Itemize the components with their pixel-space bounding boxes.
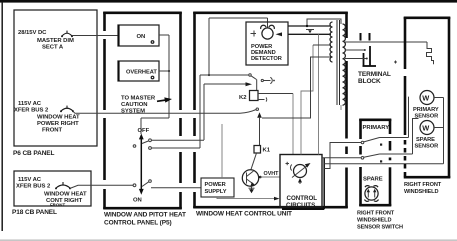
svg-text:115V AC: 115V AC (18, 101, 42, 107)
wire transformer to windshield heat film (345, 41, 427, 43)
rotary selector actuator (365, 186, 379, 202)
right front windshield sensor switch box (thick, gaps) (359, 119, 391, 206)
svg-text:28/15V DC: 28/15V DC (18, 30, 47, 36)
svg-text:PRIMARY: PRIMARY (413, 107, 439, 113)
svg-text:W: W (422, 93, 429, 102)
wire OVERHEAT light return (159, 70, 170, 72)
transformer taps left winding (262, 45, 331, 118)
node OVHT output (259, 171, 280, 178)
label P6 CB PANEL (13, 150, 55, 157)
window heat control unit box (thick, gaps at wire entries) (193, 12, 348, 208)
label PRIMARY (switch position) (363, 125, 390, 131)
wire sensor common return (324, 163, 443, 165)
P6 circuit breaker panel box (14, 10, 97, 146)
spare sensor (413, 119, 444, 155)
label WINDOW AND PITOT HEAT CONTROL PANEL (P5) (104, 212, 186, 227)
svg-text:115V AC: 115V AC (18, 177, 42, 183)
bus label 28/15V DC (18, 30, 47, 36)
P18 circuit breaker panel box (14, 171, 91, 206)
svg-text:CIRCUITS: CIRCUITS (286, 202, 315, 209)
label RIGHT FRONT WINDSHIELD SENSOR SWITCH (357, 211, 403, 231)
svg-text:K1: K1 (263, 148, 271, 154)
wire into power supply from K1 contact feed (221, 124, 223, 178)
svg-text:SENSOR SWITCH: SENSOR SWITCH (357, 225, 403, 231)
relay coil K1 (251, 146, 271, 171)
wires transformer taps to terminal block (345, 49, 368, 60)
bus label 115V AC XFER BUS 2 (14, 101, 49, 114)
svg-text:RIGHT FRONT: RIGHT FRONT (404, 182, 442, 188)
wire feed to power demand detector (208, 18, 268, 76)
svg-text:OFF: OFF (138, 128, 150, 134)
power supply box (201, 178, 234, 197)
wire switch ON output to power supply (151, 187, 201, 189)
svg-text:XFER BUS 2: XFER BUS 2 (14, 108, 49, 114)
windshield heat film element (427, 42, 434, 64)
relay contact K1 (movable arm) (240, 108, 262, 146)
wire switch contact row2 to relay contact K2 (151, 75, 248, 148)
svg-text:PRIMARY: PRIMARY (363, 125, 390, 131)
svg-text:SECT A: SECT A (42, 45, 64, 51)
svg-text:MASTER DIM: MASTER DIM (37, 38, 74, 44)
relay coil K2 (239, 80, 293, 155)
circuit breaker WINDOW HEAT POWER RIGHT FRONT (37, 106, 80, 134)
power demand detector box (246, 22, 288, 65)
svg-text:SPARE: SPARE (363, 177, 383, 183)
svg-text:POWER: POWER (205, 182, 226, 188)
svg-text:P18 CB PANEL: P18 CB PANEL (12, 209, 57, 216)
arrow into detector from transformer line (276, 32, 283, 36)
svg-text:WINDOW HEAT: WINDOW HEAT (44, 192, 87, 198)
svg-text:XFER BUS 2: XFER BUS 2 (16, 184, 51, 190)
transistor overheat sensor stage (242, 170, 258, 186)
svg-text:K2: K2 (239, 95, 247, 101)
svg-text:FRONT: FRONT (50, 203, 65, 208)
indicator light OVERHEAT (118, 61, 159, 81)
wire ON light return (159, 35, 169, 118)
bus label 115V AC XFER BUS 2 (P18) (16, 177, 51, 190)
svg-text:WINDSHIELD: WINDSHIELD (404, 189, 438, 195)
primary sensor (409, 91, 444, 138)
wires K2 and transformer taps down into control circuits (301, 34, 341, 154)
window and pitot heat control panel box (thick, gaps at wire entries) (103, 12, 182, 209)
wire CB2 long 115VAC power to control unit (73, 111, 240, 113)
svg-text:SYSTEM: SYSTEM (121, 109, 145, 115)
label RIGHT FRONT WINDSHIELD (404, 182, 442, 195)
svg-text:OVERHEAT: OVERHEAT (126, 70, 157, 76)
wire control circuits to sensor switch contact 1 (324, 143, 361, 169)
ground below transistor (249, 186, 255, 193)
wire control circuits to sensor switch contact 2 (322, 157, 361, 159)
svg-text:SPARE: SPARE (416, 137, 435, 143)
svg-text:TERMINAL: TERMINAL (358, 71, 391, 78)
svg-text:WINDSHIELD: WINDSHIELD (357, 218, 391, 224)
relay contact K2 (upper contact) (249, 74, 275, 84)
sensor switch contact spare (361, 154, 412, 163)
wire lights to switch OFF throw (141, 118, 169, 134)
svg-text:OVHT: OVHT (264, 171, 280, 177)
wire power supply to control circuits (217, 197, 280, 201)
indicator light ON (118, 25, 159, 46)
svg-text:CONTROL PANEL (P5): CONTROL PANEL (P5) (104, 220, 172, 227)
thick power wire detector to transformer (288, 19, 341, 34)
svg-text:RIGHT FRONT: RIGHT FRONT (357, 211, 395, 217)
circuit breaker WINDOW HEAT CONT RIGHT FRONT (44, 182, 87, 208)
control circuits box with shadow (280, 155, 324, 210)
wire sensors return riser (443, 98, 445, 164)
svg-text:CAUTION: CAUTION (121, 102, 147, 108)
sensor switch contact primary (361, 138, 408, 146)
svg-text:W: W (422, 123, 429, 132)
svg-text:TO MASTER: TO MASTER (121, 96, 156, 102)
svg-text:ON: ON (133, 198, 142, 204)
arrow TO MASTER CAUTION SYSTEM (121, 96, 172, 115)
right front windshield box (thick, dashed lower left) (404, 17, 451, 178)
terminal block (358, 33, 397, 85)
label WINDOW HEAT CONTROL UNIT (196, 211, 292, 218)
autotransformer windings and core (330, 20, 345, 105)
regulator symbol in control circuits (286, 162, 311, 184)
label P18 CB PANEL (12, 209, 57, 216)
svg-text:ON: ON (137, 34, 146, 40)
wire CB1 to ON light (72, 35, 118, 37)
svg-text:WINDOW HEAT CONTROL UNIT: WINDOW HEAT CONTROL UNIT (196, 211, 292, 218)
svg-text:SENSOR: SENSOR (415, 144, 439, 150)
wire P18 CB to switch (70, 185, 133, 188)
svg-text:FRONT: FRONT (42, 128, 62, 134)
svg-text:WINDOW HEAT: WINDOW HEAT (37, 115, 80, 121)
svg-text:SUPPLY: SUPPLY (205, 189, 227, 195)
circuit breaker MASTER DIM SECT A (37, 31, 74, 51)
svg-text:DETECTOR: DETECTOR (251, 56, 282, 62)
label SPARE (switch position) (363, 177, 383, 183)
wire switch contact row1 to control unit (151, 82, 252, 140)
svg-text:POWER RIGHT: POWER RIGHT (37, 121, 79, 127)
svg-text:BLOCK: BLOCK (358, 78, 381, 85)
svg-text:P6 CB PANEL: P6 CB PANEL (13, 150, 55, 157)
current transformer symbol in detector (251, 25, 275, 39)
svg-text:WINDOW AND PITOT HEAT: WINDOW AND PITOT HEAT (104, 212, 186, 219)
svg-text:CONTROL: CONTROL (287, 195, 318, 202)
switch WINDOW HEAT (OFF/ON toggle) (133, 128, 151, 204)
